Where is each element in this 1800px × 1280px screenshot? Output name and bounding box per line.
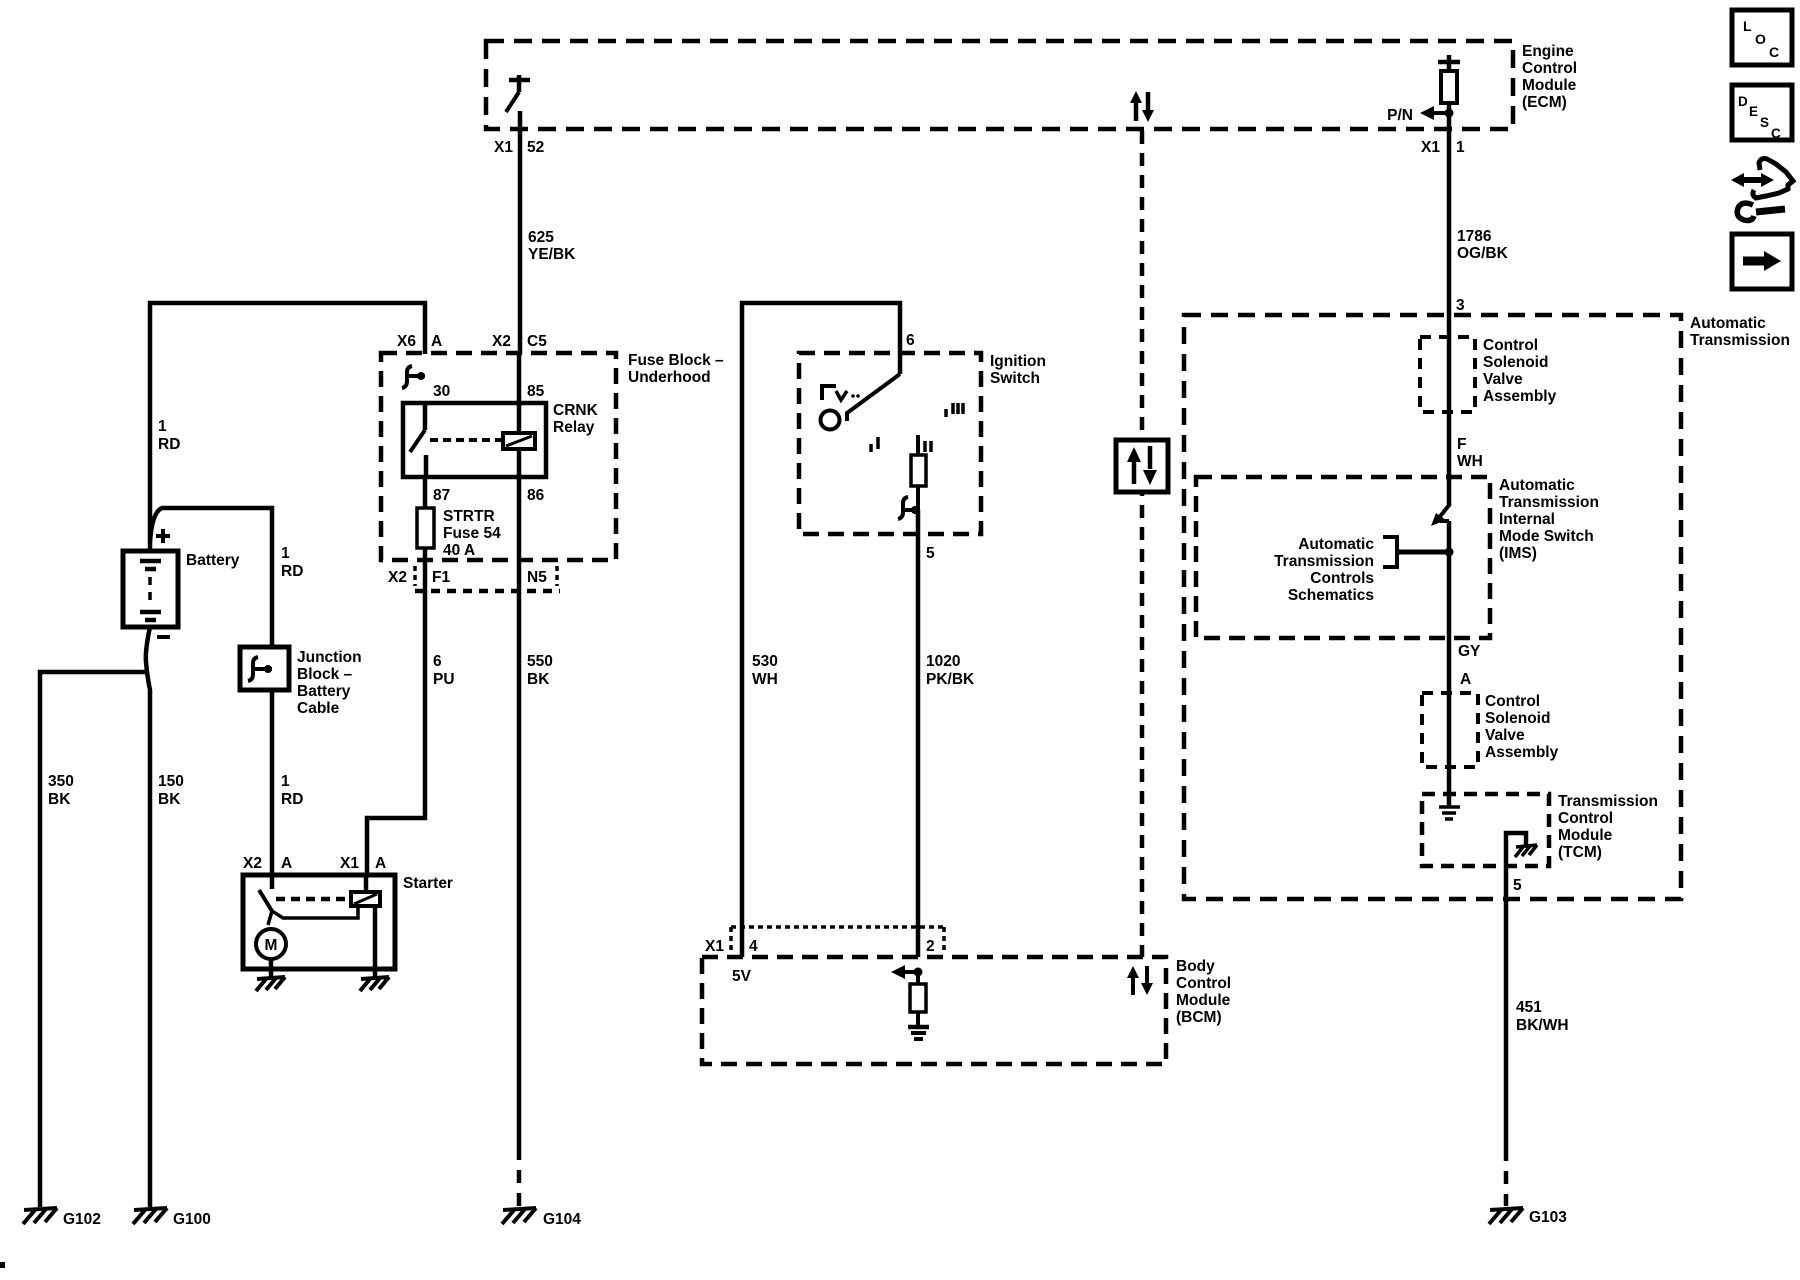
svg-text:451: 451 — [1516, 999, 1542, 1016]
fuse block underhood dashed box — [381, 353, 616, 560]
starter motor case ground — [256, 977, 285, 991]
ignition switch rotor circle — [821, 411, 840, 430]
svg-text:Fuse Block –: Fuse Block – — [628, 352, 724, 369]
label Transmission Control Module (TCM) — [1558, 793, 1658, 861]
svg-text:E: E — [1749, 104, 1758, 119]
wire 451 BK/WH: TCM pin 5 down to ground G103 — [1504, 866, 1509, 1206]
relay CRNK mechanical link dashed — [430, 438, 501, 442]
svg-text:D: D — [1738, 94, 1748, 109]
switch S1: ECM starter-relay driver switch — [506, 75, 530, 112]
svg-text:X2: X2 — [243, 855, 262, 872]
svg-text:30: 30 — [433, 383, 450, 400]
svg-text:F: F — [1457, 436, 1466, 453]
starter solenoid switch contact — [259, 890, 358, 918]
svg-text:C5: C5 — [527, 333, 547, 350]
svg-text:L: L — [1743, 18, 1752, 34]
relay CRNK switch contact — [410, 403, 426, 477]
label 5V inside BCM — [732, 968, 752, 985]
connector symbol on pin A wire — [402, 366, 425, 388]
svg-text:Internal: Internal — [1499, 511, 1555, 528]
svg-text:A: A — [281, 855, 292, 872]
wire pin 3 into control solenoid valve assembly — [1447, 316, 1452, 505]
svg-text:Schematics: Schematics — [1288, 587, 1374, 604]
icon wrench and arrows — [1731, 159, 1793, 221]
svg-text:X2: X2 — [388, 569, 407, 586]
label wire 1 RD (left) — [158, 418, 180, 453]
svg-text:C: C — [1769, 44, 1779, 60]
label wire 625 YE/BK — [528, 229, 576, 263]
svg-text:Control: Control — [1485, 693, 1540, 710]
svg-text:40 A: 40 A — [443, 542, 475, 559]
starter solenoid case ground — [360, 977, 389, 991]
svg-text:350: 350 — [48, 773, 74, 790]
wire 150 BK: battery negative down to ground G100 — [146, 627, 150, 1207]
label wire 530 WH — [752, 653, 778, 688]
svg-text:Transmission: Transmission — [1690, 332, 1790, 349]
svg-text:Control: Control — [1176, 975, 1231, 992]
wire 1020 PK/BK: ignition pin 5 down to BCM pin 2 — [916, 510, 921, 957]
svg-text:A: A — [431, 333, 442, 350]
ignition switch position II mark — [925, 441, 931, 452]
svg-text:3: 3 — [1456, 297, 1465, 314]
starter motor assembly box — [243, 875, 395, 969]
label wire 350 BK — [48, 773, 74, 808]
svg-text:YE/BK: YE/BK — [528, 246, 576, 263]
pins X6 A and X2 C5 of fuse block — [397, 333, 547, 350]
svg-text:5: 5 — [1513, 877, 1522, 894]
resistor in BCM — [910, 972, 926, 1025]
wire 1 RD: battery positive up and over to fuse block pin A — [150, 303, 425, 551]
label wire 550 BK — [527, 653, 553, 688]
resistor R1: ECM internal pull-up resistor — [1438, 55, 1460, 113]
chassis ground inside TCM — [1515, 845, 1537, 857]
svg-text:6: 6 — [906, 332, 915, 349]
pin 6 of ignition switch — [906, 332, 915, 349]
label wire 1 RD (starter feed) — [281, 773, 303, 808]
svg-text:1786: 1786 — [1457, 228, 1492, 245]
IMS: internal mode switch dashed box — [1196, 477, 1490, 638]
earth ground at solenoid assembly output — [1439, 767, 1460, 819]
svg-text:PU: PU — [433, 671, 455, 688]
ignition switch rotary contact arm — [847, 374, 900, 421]
control solenoid valve assembly upper dashed box — [1420, 337, 1475, 412]
label Fuse Block - Underhood — [628, 352, 724, 386]
connector symbol at ignition switch pin 5 — [898, 497, 919, 519]
svg-text:87: 87 — [433, 487, 450, 504]
icon forward arrow box — [1732, 234, 1792, 289]
svg-text:Control: Control — [1522, 60, 1577, 77]
svg-text:Automatic: Automatic — [1690, 315, 1766, 332]
svg-text:85: 85 — [527, 383, 545, 400]
svg-text:G102: G102 — [63, 1211, 101, 1228]
svg-text:Block –: Block – — [297, 666, 353, 683]
ignition switch position III mark — [946, 403, 963, 417]
ground G103 — [1489, 1208, 1567, 1226]
label wire 1786 OG/BK — [1457, 228, 1509, 262]
relay CRNK: relay outline box — [403, 403, 546, 477]
svg-text:Engine: Engine — [1522, 43, 1574, 60]
svg-text:Transmission: Transmission — [1274, 553, 1374, 570]
starter solenoid coil — [351, 892, 380, 906]
svg-text:GY: GY — [1458, 643, 1481, 660]
junction block - battery cable box — [240, 647, 289, 690]
svg-text:Automatic: Automatic — [1499, 477, 1575, 494]
svg-text:Cable: Cable — [297, 700, 340, 717]
svg-text:Relay: Relay — [553, 419, 595, 436]
label Junction Block - Battery Cable — [297, 649, 362, 717]
pin 5 of ignition switch — [926, 545, 935, 562]
svg-text:X1: X1 — [494, 139, 513, 156]
label CRNK Relay — [553, 402, 599, 436]
pins X1 4 and 2 of BCM — [705, 938, 935, 955]
svg-text:RD: RD — [281, 791, 303, 808]
svg-text:BK: BK — [527, 671, 550, 688]
earth ground inside BCM — [908, 1027, 929, 1039]
svg-text:(BCM): (BCM) — [1176, 1009, 1222, 1026]
svg-text:Control: Control — [1558, 810, 1613, 827]
svg-text:STRTR: STRTR — [443, 508, 495, 525]
wire 1786 OG/BK from ECM pin 1 to automatic transmission pin 3 — [1447, 113, 1452, 316]
svg-text:M: M — [265, 937, 278, 954]
TCM internal ground wire — [1506, 833, 1526, 866]
ground G100 — [133, 1208, 211, 1228]
svg-text:1: 1 — [158, 418, 167, 435]
svg-text:625: 625 — [528, 229, 554, 246]
svg-text:(ECM): (ECM) — [1522, 94, 1567, 111]
svg-text:5V: 5V — [732, 968, 752, 985]
svg-text:Module: Module — [1558, 827, 1613, 844]
svg-text:G103: G103 — [1529, 1209, 1567, 1226]
svg-text:RD: RD — [158, 436, 180, 453]
svg-text:550: 550 — [527, 653, 553, 670]
starter mechanical link dashed — [276, 897, 350, 902]
svg-text:Controls: Controls — [1310, 570, 1374, 587]
svg-text:Battery: Battery — [297, 683, 351, 700]
svg-text:1: 1 — [281, 545, 290, 562]
automatic transmission outer dashed box — [1184, 315, 1681, 899]
ignition switch position I mark — [871, 437, 878, 452]
connector symbol in junction block — [248, 657, 272, 681]
TCM: transmission control module dashed box — [1422, 794, 1549, 866]
link to automatic transmission controls schematics — [1383, 537, 1449, 567]
svg-text:WH: WH — [752, 671, 778, 688]
svg-text:A: A — [375, 855, 386, 872]
svg-text:N5: N5 — [527, 569, 547, 586]
svg-text:G100: G100 — [173, 1211, 211, 1228]
svg-text:Valve: Valve — [1483, 371, 1523, 388]
wire 625 YE/BK from ECM pin 52 down to fuse block pin C5 — [518, 111, 523, 354]
svg-text:150: 150 — [158, 773, 184, 790]
svg-text:(IMS): (IMS) — [1499, 545, 1537, 562]
svg-text:CRNK: CRNK — [553, 402, 599, 419]
wire 550 BK: fuse block N5 down to ground G104 — [517, 560, 522, 1206]
control solenoid valve assembly lower dashed box — [1422, 693, 1478, 767]
label Ignition Switch — [990, 353, 1046, 387]
icon LOC box — [1732, 10, 1792, 65]
svg-text:BK: BK — [48, 791, 71, 808]
svg-text:1: 1 — [1456, 139, 1465, 156]
svg-text:Assembly: Assembly — [1485, 744, 1559, 761]
pin X1 1 of ECM — [1421, 139, 1465, 156]
svg-text:X2: X2 — [492, 333, 511, 350]
label Automatic Transmission — [1690, 315, 1790, 349]
svg-text:Battery: Battery — [186, 552, 240, 569]
svg-text:BK: BK — [158, 791, 181, 808]
svg-text:X1: X1 — [1421, 139, 1440, 156]
label wire 1 RD (junction block feed) — [281, 545, 303, 580]
svg-text:WH: WH — [1457, 453, 1483, 470]
label Automatic Transmission Controls Schematics — [1274, 536, 1374, 604]
svg-text:4: 4 — [749, 938, 758, 955]
svg-text:530: 530 — [752, 653, 778, 670]
svg-text:Solenoid: Solenoid — [1483, 354, 1548, 371]
svg-text:BK/WH: BK/WH — [1516, 1017, 1569, 1034]
label Control Solenoid Valve Assembly (lower) — [1485, 693, 1559, 761]
label wire 1020 PK/BK — [926, 653, 975, 688]
BCM: body control module dashed box — [702, 957, 1166, 1064]
svg-text:Mode Switch: Mode Switch — [1499, 528, 1594, 545]
label STRTR Fuse 54 40 A — [443, 508, 501, 559]
fuse STRTR Fuse 54 40 A — [417, 477, 434, 560]
label wire 150 BK — [158, 773, 184, 808]
svg-text:OG/BK: OG/BK — [1457, 245, 1509, 262]
wire 1 RD: battery positive to junction block — [150, 508, 272, 647]
ECM serial-data bidirectional arrows — [1130, 91, 1154, 122]
ignition switch dashed box — [799, 353, 981, 534]
wire X1 A into solenoid coil — [364, 876, 369, 892]
ignition switch accessory position mark — [822, 386, 860, 400]
BCM serial-data bidirectional arrows — [1127, 966, 1153, 995]
pin X1 52 of ECM — [494, 139, 544, 156]
module ECM: Engine Control Module dashed box — [486, 41, 1513, 129]
svg-text:Fuse 54: Fuse 54 — [443, 525, 501, 542]
IMS wiper switch contact — [1431, 504, 1450, 552]
svg-text:Switch: Switch — [990, 370, 1040, 387]
wire 6 PU: fuse F1 down to starter pin X1 A — [367, 560, 425, 876]
node IMS output junction — [1445, 548, 1454, 557]
svg-text:52: 52 — [527, 139, 544, 156]
svg-text:A: A — [1460, 671, 1471, 688]
svg-text:F1: F1 — [432, 569, 450, 586]
svg-text:Automatic: Automatic — [1298, 536, 1374, 553]
battery negative terminal — [157, 635, 170, 639]
svg-text:Ignition: Ignition — [990, 353, 1046, 370]
svg-text:Underhood: Underhood — [628, 369, 711, 386]
relay CRNK coil — [503, 433, 535, 449]
svg-text:1: 1 — [281, 773, 290, 790]
motor M of starter — [256, 911, 286, 977]
connector X2 F1 N5 below fuse block — [388, 566, 560, 591]
pin 5 of TCM — [1513, 877, 1522, 894]
wire 530 WH: ignition switch feed from BCM pin 4 — [742, 303, 900, 957]
svg-text:86: 86 — [527, 487, 545, 504]
svg-text:Assembly: Assembly — [1483, 388, 1557, 405]
pins X2 A and X1 A of starter — [243, 855, 386, 872]
label wire 451 BK/WH — [1516, 999, 1569, 1034]
page corner mark — [0, 1262, 5, 1268]
svg-text:O: O — [1755, 31, 1766, 47]
svg-text:Junction: Junction — [297, 649, 362, 666]
resistor in ignition switch — [911, 435, 926, 510]
svg-text:(TCM): (TCM) — [1558, 844, 1602, 861]
wire solenoid coil to starter case ground — [373, 906, 378, 977]
pin 3 of automatic transmission — [1456, 297, 1465, 314]
svg-text:S: S — [1760, 115, 1769, 130]
svg-text:RD: RD — [281, 563, 303, 580]
svg-text:1020: 1020 — [926, 653, 960, 670]
svg-text:P/N: P/N — [1387, 107, 1413, 124]
svg-text:Module: Module — [1176, 992, 1231, 1009]
label wire F WH — [1457, 436, 1483, 470]
svg-text:6: 6 — [433, 653, 442, 670]
svg-text:Module: Module — [1522, 77, 1577, 94]
svg-text:G104: G104 — [543, 1211, 581, 1228]
svg-text:X1: X1 — [340, 855, 359, 872]
label wire GY — [1458, 643, 1481, 660]
svg-text:5: 5 — [926, 545, 935, 562]
label Body Control Module (BCM) — [1176, 958, 1231, 1026]
label Control Solenoid Valve Assembly (upper) — [1483, 337, 1557, 405]
label Starter — [403, 875, 453, 892]
label Automatic Transmission Internal Mode Switch (IMS) — [1499, 477, 1599, 562]
svg-text:Solenoid: Solenoid — [1485, 710, 1550, 727]
wire serial data: dashed line ECM to BCM — [1140, 131, 1145, 957]
wire pin 85 through coil — [517, 354, 522, 560]
pins 30 85 87 86 of relay — [433, 383, 545, 504]
label Engine Control Module (ECM) — [1522, 43, 1577, 111]
wire 1 RD: junction block down to starter pin X2 A — [270, 690, 275, 889]
connector X1 of BCM — [731, 927, 944, 951]
svg-text:Transmission: Transmission — [1558, 793, 1658, 810]
svg-text:Transmission: Transmission — [1499, 494, 1599, 511]
svg-text:Valve: Valve — [1485, 727, 1525, 744]
label wire 6 PU — [433, 653, 455, 688]
svg-text:X1: X1 — [705, 938, 724, 955]
svg-text:Body: Body — [1176, 958, 1215, 975]
BCM input sense arrow at pin 2 — [891, 965, 923, 979]
svg-text:C: C — [1771, 126, 1781, 141]
pin A of control solenoid valve assembly — [1460, 671, 1471, 688]
label Battery — [186, 552, 240, 569]
icon DESC box — [1732, 85, 1792, 141]
svg-text:PK/BK: PK/BK — [926, 671, 975, 688]
svg-text:X6: X6 — [397, 333, 416, 350]
svg-text:2: 2 — [926, 938, 935, 955]
battery positive terminal — [156, 529, 170, 543]
svg-text:Control: Control — [1483, 337, 1538, 354]
ground G104 — [502, 1208, 581, 1228]
battery BT1 — [123, 551, 178, 627]
node P/N: junction dot and signal arrow — [1387, 106, 1453, 124]
wire GY: IMS to lower control solenoid valve assembly — [1447, 552, 1452, 767]
wire 350 BK: battery negative over and down to ground G102 — [40, 672, 147, 1207]
svg-text:Starter: Starter — [403, 875, 453, 892]
serial data in/out arrows box on wire — [1116, 440, 1168, 492]
ground G102 — [23, 1208, 101, 1228]
